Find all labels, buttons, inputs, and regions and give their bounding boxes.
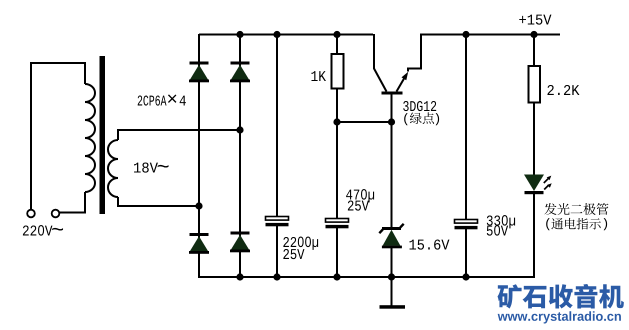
wire 1K branch upper: [336, 34, 338, 55]
resistor R1 1K: [332, 54, 344, 89]
wire 2.2K to LED: [533, 102, 535, 175]
wire LED to bottom rail: [533, 193, 535, 278]
diode D3 (2CP6A) bridge bottom-left: [189, 233, 209, 254]
wire filter cap branch upper: [276, 34, 278, 217]
label 18V~: [134, 162, 169, 172]
wire top rail left segment: [199, 34, 373, 36]
wire bridge branch 1 vertical: [198, 34, 200, 278]
label 2200u: [283, 237, 318, 260]
label (green dot) for 3DG12: [404, 112, 439, 125]
label 3DG12: [403, 101, 436, 111]
label +15V: [519, 15, 551, 25]
ground: [380, 277, 406, 309]
zener diode DW 15.6V: [379, 224, 403, 249]
wire bridge branch 2 vertical: [239, 34, 241, 278]
wire bottom rail: [198, 276, 535, 278]
watermark logo text: [498, 284, 624, 309]
wire 330u branch upper: [465, 34, 467, 219]
transformer core: [100, 56, 106, 214]
diode D1 (2CP6A) bridge top-left: [189, 62, 209, 83]
wire secondary bottom tap: [117, 205, 199, 207]
label 1K: [311, 71, 326, 81]
wire base vertical to zener: [391, 94, 393, 227]
label 2CP6A x4: [138, 94, 186, 105]
transistor Q1 3DG12 collector lead: [374, 34, 387, 92]
label 470u: [346, 189, 374, 211]
label 2.2K: [547, 85, 579, 95]
transistor Q1 base bar: [382, 92, 403, 95]
label 220V~: [23, 225, 63, 236]
transformer primary left lead: [31, 63, 85, 209]
capacitor C3 330u 50V: [455, 220, 478, 230]
diode D4 (2CP6A) bridge bottom-right: [230, 232, 250, 253]
label 15.6V: [409, 239, 449, 249]
wire 2.2K LED branch upper: [533, 34, 535, 67]
capacitor C1 2200u 25V: [266, 217, 289, 227]
transformer primary bottom lead: [60, 192, 86, 213]
wire 330u branch lower: [465, 229, 467, 278]
watermark url: [498, 311, 621, 323]
wire 470u branch lower: [336, 227, 338, 278]
terminal 220V input right: [52, 210, 60, 218]
label 330u: [487, 215, 515, 236]
wire filter cap branch lower: [276, 226, 278, 278]
LED power indicator: [524, 175, 552, 195]
transformer T1 primary winding: [85, 84, 95, 192]
terminal 220V input left: [27, 210, 35, 218]
wire zener anode to bottom rail: [391, 247, 393, 278]
wire top rail right segment: [420, 34, 560, 36]
label power-indicator chinese: [546, 218, 607, 230]
transformer secondary winding 18V: [108, 131, 118, 207]
resistor R2 2.2K: [529, 66, 541, 103]
wire 470u branch upper: [336, 122, 338, 219]
diode D2 (2CP6A) bridge top-right: [230, 62, 250, 83]
capacitor C2 470u 25V: [326, 219, 349, 229]
transistor Q1 emitter with arrow: [397, 34, 422, 92]
label LED chinese: [544, 203, 608, 215]
wire base junction horizontal: [336, 121, 392, 123]
wire 1K branch lower: [336, 88, 338, 123]
wire secondary top tap: [117, 129, 240, 131]
